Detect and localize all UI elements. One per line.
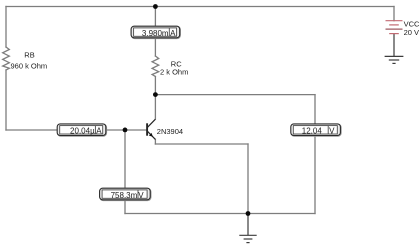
svg-text:V: V xyxy=(329,127,335,136)
svg-text:RB: RB xyxy=(24,51,34,60)
svg-text:A: A xyxy=(96,127,102,136)
svg-text:2N3904: 2N3904 xyxy=(157,127,183,136)
svg-text:12.04: 12.04 xyxy=(302,127,323,136)
svg-text:20.04µ: 20.04µ xyxy=(70,127,95,136)
svg-text:20 V: 20 V xyxy=(404,28,419,37)
svg-text:2 k Ohm: 2 k Ohm xyxy=(160,68,188,77)
svg-text:A: A xyxy=(170,29,176,38)
svg-text:960 k Ohm: 960 k Ohm xyxy=(11,61,48,70)
svg-text:758.3m: 758.3m xyxy=(111,191,138,200)
svg-text:3.980m: 3.980m xyxy=(142,29,169,38)
svg-text:V: V xyxy=(138,191,144,200)
